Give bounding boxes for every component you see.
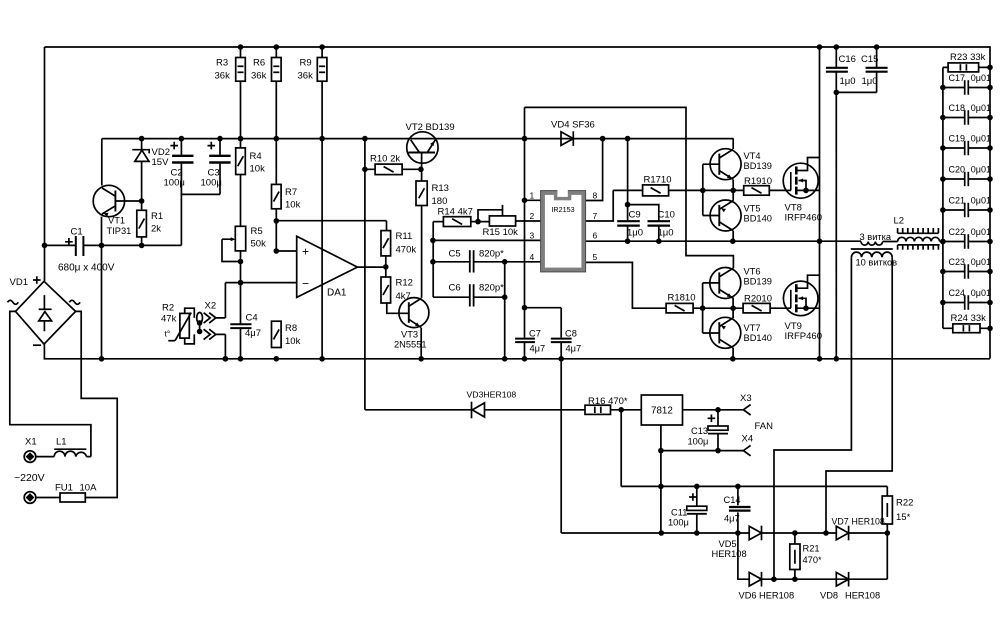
svg-text:0μ01: 0μ01	[971, 257, 991, 267]
svg-text:6: 6	[593, 231, 598, 241]
svg-text:820p*: 820p*	[479, 283, 504, 294]
svg-text:VD5: VD5	[719, 539, 737, 549]
svg-text:−: −	[302, 277, 309, 291]
svg-text:VT4: VT4	[744, 151, 761, 161]
svg-text:C14: C14	[724, 495, 741, 505]
svg-text:0μ01: 0μ01	[971, 227, 991, 237]
svg-text:470*: 470*	[803, 555, 823, 565]
svg-text:BD139: BD139	[744, 277, 772, 287]
svg-text:C4: C4	[246, 313, 258, 324]
svg-text:C20: C20	[949, 165, 966, 175]
svg-text:0μ01: 0μ01	[971, 103, 991, 113]
svg-text:HER108: HER108	[712, 549, 747, 559]
svg-text:0μ01: 0μ01	[971, 165, 991, 175]
svg-text:C16: C16	[839, 54, 856, 65]
svg-text:10k: 10k	[285, 336, 301, 347]
svg-text:C9: C9	[629, 210, 641, 221]
svg-text:BD140: BD140	[744, 214, 772, 224]
svg-text:1μ0: 1μ0	[862, 76, 878, 87]
svg-text:8: 8	[593, 191, 598, 201]
svg-text:15*: 15*	[896, 512, 911, 523]
svg-text:100μ: 100μ	[668, 518, 689, 528]
svg-text:R16 470*: R16 470*	[588, 396, 628, 407]
svg-text:C19: C19	[949, 134, 966, 144]
svg-text:R21: R21	[803, 544, 820, 554]
svg-text:100μ: 100μ	[164, 178, 185, 189]
svg-text:C22: C22	[949, 227, 966, 237]
svg-text:47k: 47k	[161, 314, 177, 325]
svg-text:HER108: HER108	[845, 591, 880, 601]
svg-text:180: 180	[432, 196, 448, 207]
svg-text:HER108: HER108	[852, 517, 885, 527]
svg-text:C1: C1	[71, 227, 83, 238]
svg-text:VT7: VT7	[744, 323, 761, 333]
svg-text:C5: C5	[449, 249, 461, 260]
svg-text:7: 7	[593, 211, 598, 221]
svg-text:4: 4	[530, 252, 535, 262]
svg-text:R8: R8	[285, 323, 297, 334]
svg-text:R12: R12	[396, 278, 413, 289]
svg-text:R1710: R1710	[644, 175, 672, 186]
svg-text:100μ: 100μ	[688, 437, 709, 447]
svg-text:36k: 36k	[298, 71, 314, 82]
svg-text:DA1: DA1	[327, 288, 347, 299]
svg-text:2k: 2k	[151, 224, 161, 235]
svg-text:VD6: VD6	[739, 591, 757, 601]
svg-text:R6: R6	[253, 58, 265, 69]
svg-text:C8: C8	[565, 329, 577, 339]
svg-text:BD140: BD140	[744, 333, 772, 343]
svg-text:4k7: 4k7	[396, 291, 411, 302]
svg-text:C7: C7	[529, 329, 541, 339]
svg-text:4μ7: 4μ7	[530, 344, 546, 354]
svg-text:HER108: HER108	[759, 591, 794, 601]
svg-text:X3: X3	[740, 393, 752, 404]
svg-text:R1910: R1910	[744, 176, 772, 187]
svg-text:36k: 36k	[215, 71, 231, 82]
svg-text:R2010: R2010	[744, 294, 772, 305]
svg-text:50k: 50k	[251, 239, 267, 250]
svg-text:1μ0: 1μ0	[627, 228, 643, 239]
svg-text:5: 5	[593, 252, 598, 262]
svg-text:FAN: FAN	[755, 421, 774, 432]
svg-text:36k: 36k	[251, 71, 267, 82]
svg-text:TIP31: TIP31	[107, 226, 132, 236]
svg-text:10A: 10A	[80, 483, 98, 494]
svg-text:10 витков: 10 витков	[856, 258, 898, 268]
svg-text:4μ7: 4μ7	[566, 344, 582, 354]
svg-text:C21: C21	[949, 196, 966, 206]
svg-text:VT5: VT5	[744, 204, 761, 214]
svg-text:820p*: 820p*	[479, 249, 504, 260]
svg-text:IR2153: IR2153	[551, 205, 574, 214]
svg-text:R1810: R1810	[668, 293, 696, 304]
svg-text:VD7: VD7	[832, 517, 849, 527]
svg-text:R4: R4	[250, 151, 262, 162]
svg-text:C18: C18	[949, 103, 966, 113]
svg-text:VD1: VD1	[10, 277, 28, 288]
svg-text:X2: X2	[205, 301, 217, 312]
svg-text:VT1: VT1	[108, 216, 125, 226]
svg-text:0μ01: 0μ01	[971, 73, 991, 83]
svg-text:1: 1	[530, 191, 535, 201]
svg-text:R13: R13	[432, 183, 449, 194]
svg-text:0μ01: 0μ01	[971, 196, 991, 206]
svg-text:R9: R9	[300, 58, 312, 69]
svg-text:R14 4k7: R14 4k7	[438, 207, 473, 218]
svg-text:R3: R3	[216, 58, 228, 69]
svg-text:C6: C6	[449, 283, 461, 294]
svg-text:R5: R5	[251, 226, 263, 237]
svg-text:680μ x 400V: 680μ x 400V	[58, 263, 115, 274]
svg-text:10k: 10k	[285, 200, 301, 211]
svg-text:VT3: VT3	[401, 330, 418, 340]
svg-text:4μ7: 4μ7	[724, 514, 740, 524]
svg-text:3: 3	[530, 231, 535, 241]
svg-text:4μ7: 4μ7	[245, 328, 261, 339]
svg-text:IRFP460: IRFP460	[785, 213, 823, 224]
svg-text:L1: L1	[56, 437, 67, 448]
svg-text:L2: L2	[894, 216, 905, 227]
svg-text:R11: R11	[396, 231, 413, 242]
svg-text:t°: t°	[165, 329, 171, 339]
svg-text:100μ: 100μ	[201, 178, 222, 189]
svg-text:C23: C23	[949, 257, 966, 267]
svg-text:X4: X4	[742, 434, 754, 445]
svg-text:VT6: VT6	[744, 267, 761, 277]
svg-text:C24: C24	[949, 288, 966, 298]
svg-text:R10 2k: R10 2k	[370, 154, 400, 165]
svg-text:FU1: FU1	[55, 483, 73, 494]
svg-text:7812: 7812	[651, 406, 673, 417]
svg-text:C10: C10	[658, 210, 675, 221]
svg-text:0μ01: 0μ01	[971, 288, 991, 298]
svg-text:C11: C11	[671, 508, 687, 518]
svg-text:470k: 470k	[396, 245, 417, 256]
svg-text:R1: R1	[151, 211, 163, 222]
svg-text:X1: X1	[25, 437, 37, 448]
svg-text:10k: 10k	[250, 164, 266, 175]
svg-text:1μ0: 1μ0	[658, 228, 674, 239]
svg-text:C15: C15	[861, 54, 878, 65]
svg-text:C13: C13	[691, 426, 708, 436]
svg-text:VD8: VD8	[820, 591, 838, 601]
svg-text:2: 2	[530, 211, 535, 221]
svg-text:2N5551: 2N5551	[394, 340, 427, 350]
svg-text:VD3HER108: VD3HER108	[467, 390, 517, 400]
svg-text:C17: C17	[949, 73, 966, 83]
svg-text:VD4 SF36: VD4 SF36	[551, 120, 595, 131]
svg-text:VT2 BD139: VT2 BD139	[406, 122, 455, 133]
svg-text:R22: R22	[896, 498, 913, 509]
svg-text:R2: R2	[162, 303, 174, 314]
svg-text:0μ01: 0μ01	[971, 134, 991, 144]
svg-text:1μ0: 1μ0	[840, 76, 856, 87]
svg-text:3 витка: 3 витка	[860, 232, 892, 242]
svg-text:~220V: ~220V	[14, 472, 45, 484]
svg-text:15V: 15V	[152, 157, 170, 168]
svg-text:R15 10k: R15 10k	[483, 227, 519, 238]
svg-text:R24 33k: R24 33k	[951, 313, 987, 324]
svg-text:R7: R7	[285, 187, 297, 198]
svg-text:R23 33k: R23 33k	[950, 52, 986, 63]
svg-text:IRFP460: IRFP460	[785, 331, 823, 342]
svg-text:+: +	[302, 245, 309, 259]
svg-text:BD139: BD139	[744, 161, 772, 171]
